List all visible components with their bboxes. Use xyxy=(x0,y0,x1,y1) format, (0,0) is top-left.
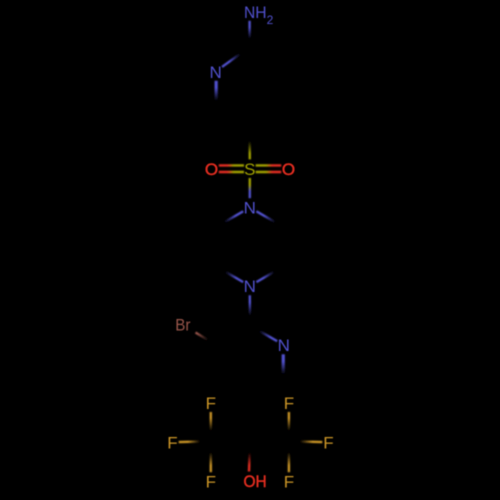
bond C-F down-right xyxy=(288,441,290,472)
double bond N1=C6 (top pyridine) line a xyxy=(215,81,217,110)
double bond N1=C6 (bottom pyridine) line b xyxy=(282,354,284,384)
bond C-F up-right xyxy=(288,412,290,441)
bond C2-N1 (top pyridine) xyxy=(222,47,250,67)
svg-text:Br: Br xyxy=(175,316,191,335)
svg-text:S: S xyxy=(244,160,255,179)
bond C5-N4 (piperazine) xyxy=(256,266,283,282)
svg-text:F: F xyxy=(284,473,294,492)
svg-text:O: O xyxy=(205,160,218,179)
svg-text:N: N xyxy=(278,336,290,355)
bond C3-N4 (piperazine) xyxy=(216,266,243,282)
bond S-N1 (piperazine) xyxy=(249,178,251,198)
svg-text:F: F xyxy=(206,394,216,413)
bond N4-C2 (bottom pyridine) xyxy=(249,295,252,325)
double bond N1=C6 (top pyridine) line b xyxy=(216,81,218,110)
bond N1-C2 (piperazine) xyxy=(216,211,243,227)
svg-text:F: F xyxy=(167,434,177,453)
double bond S=O left line b xyxy=(219,164,244,166)
svg-text:F: F xyxy=(284,394,294,413)
double bond S=O left line a xyxy=(219,171,244,173)
bond C-OH xyxy=(249,442,250,472)
bond C2-N1 (bottom pyridine) xyxy=(250,326,277,342)
bond C-F up-left xyxy=(210,412,212,441)
bond C-F outer-left xyxy=(179,440,211,443)
svg-text:OH: OH xyxy=(244,472,267,491)
svg-text:N: N xyxy=(209,63,221,82)
double bond N1=C6 (bottom pyridine) line a xyxy=(283,354,285,384)
bond N1-C6 (piperazine) xyxy=(256,211,283,227)
bond C5-S xyxy=(248,131,251,160)
svg-text:F: F xyxy=(206,473,216,492)
bond C-F down-left xyxy=(210,441,212,472)
double bond S=O right line b xyxy=(256,164,282,166)
svg-text:N: N xyxy=(244,277,256,296)
double bond S=O right line a xyxy=(256,171,282,173)
svg-text:F: F xyxy=(323,434,333,453)
bond Br-C3 xyxy=(196,333,217,346)
svg-text:N: N xyxy=(244,199,256,218)
svg-text:O: O xyxy=(282,160,295,179)
bond NH2-C2 xyxy=(248,21,250,47)
bond C-F outer-right xyxy=(289,440,322,443)
